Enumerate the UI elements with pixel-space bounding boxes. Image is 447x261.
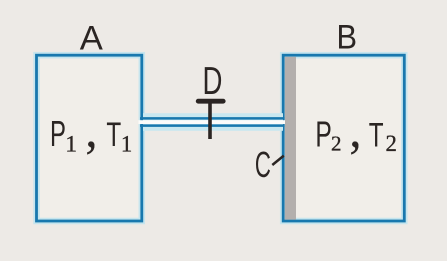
leader line from C to piston [272,156,284,165]
svg-text:P: P [50,114,66,154]
svg-text:A: A [80,20,103,58]
tube bottom wall [140,124,285,127]
tube halo [143,113,283,131]
valve D stem [208,101,212,139]
tube top wall [140,117,285,120]
svg-text:C: C [255,146,271,186]
svg-text:1: 1 [121,132,132,157]
svg-text:2: 2 [385,131,396,156]
container A [37,55,142,221]
svg-text:T: T [106,116,121,154]
piston C (gray partition) [285,57,296,220]
svg-text:2: 2 [331,132,342,156]
tube interior [139,120,286,124]
svg-text:1: 1 [65,132,77,158]
svg-text:T: T [369,116,384,154]
svg-text:B: B [336,18,357,56]
container B [283,55,404,221]
svg-text:D: D [203,61,223,104]
valve D handle [198,99,223,104]
svg-text:P: P [315,114,331,155]
svg-text:,: , [349,102,361,157]
svg-text:,: , [85,102,97,157]
